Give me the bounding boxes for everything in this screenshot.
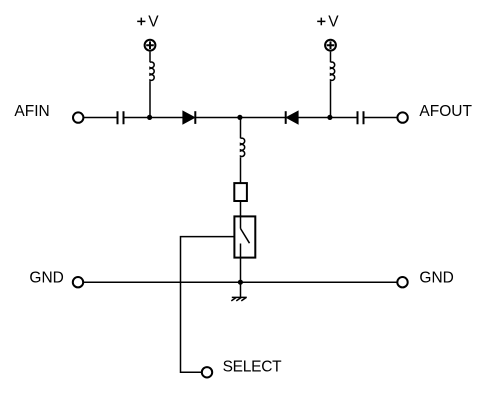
diode D1 bbox=[183, 111, 195, 124]
wire bbox=[298, 117, 356, 119]
wire bbox=[330, 52, 332, 63]
wire (switch control) bbox=[181, 237, 235, 373]
svg-text:GND: GND bbox=[419, 269, 453, 286]
svg-text:GND: GND bbox=[29, 269, 63, 286]
label AFIN bbox=[14, 103, 49, 120]
wire bbox=[149, 81, 151, 117]
svg-text:AFOUT: AFOUT bbox=[419, 103, 472, 120]
label +V left bbox=[137, 13, 159, 30]
label SELECT bbox=[223, 358, 283, 375]
wire bbox=[195, 117, 285, 119]
wire bbox=[240, 244, 242, 283]
resistor R1 bbox=[234, 183, 247, 201]
switch S1 blade bbox=[241, 229, 250, 244]
svg-text:V: V bbox=[148, 13, 159, 30]
capacitor C2 bbox=[358, 111, 364, 124]
node (right +V junction) bbox=[327, 115, 332, 120]
label AFOUT bbox=[419, 103, 472, 120]
wire bbox=[125, 117, 183, 119]
terminal AFOUT bbox=[397, 112, 407, 122]
label GND left bbox=[29, 269, 63, 286]
wire bbox=[240, 157, 242, 183]
power terminal +V left bbox=[145, 40, 156, 51]
ground (chassis) bbox=[231, 297, 247, 301]
node (left +V junction) bbox=[147, 115, 152, 120]
wire bbox=[330, 81, 332, 117]
diode D2 bbox=[286, 111, 298, 124]
label GND right bbox=[419, 269, 453, 286]
power terminal +V right bbox=[325, 40, 336, 51]
wire bbox=[240, 201, 242, 229]
terminal GND left bbox=[73, 277, 83, 287]
inductor L3 (center) bbox=[241, 138, 245, 157]
inductor L2 (right +V choke) bbox=[331, 62, 335, 81]
wire bbox=[240, 282, 242, 297]
svg-text:SELECT: SELECT bbox=[223, 358, 283, 375]
wire (GND rail) bbox=[84, 281, 397, 283]
capacitor C1 bbox=[118, 111, 124, 124]
terminal AFIN bbox=[73, 112, 83, 122]
node (GND junction) bbox=[238, 280, 243, 285]
switch S1 box bbox=[234, 216, 255, 257]
label +V right bbox=[317, 13, 339, 30]
svg-text:AFIN: AFIN bbox=[14, 103, 49, 120]
wire bbox=[365, 117, 398, 119]
svg-text:V: V bbox=[328, 13, 339, 30]
wire bbox=[240, 118, 242, 139]
node (center junction) bbox=[237, 115, 242, 120]
inductor L1 (left +V choke) bbox=[150, 62, 154, 81]
terminal SELECT bbox=[202, 367, 212, 377]
terminal GND right bbox=[397, 277, 407, 287]
wire bbox=[84, 117, 117, 119]
wire bbox=[149, 52, 151, 63]
